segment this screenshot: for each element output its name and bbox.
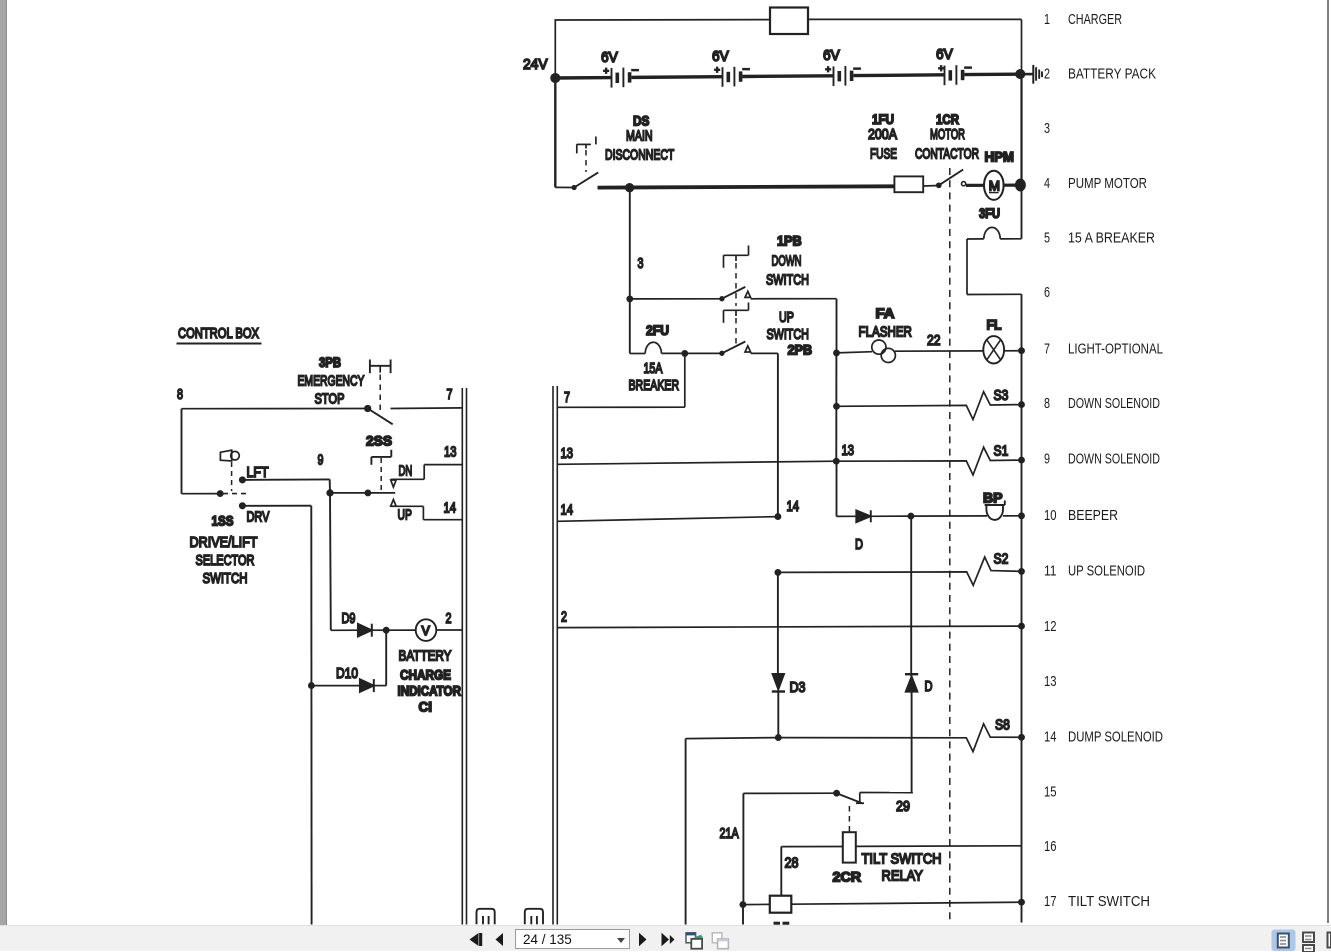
snapshot icon disabled (712, 933, 728, 949)
bus connector left (462, 388, 466, 925)
contactor 1CR (915, 111, 979, 187)
pushbutton 2PB UP switch (685, 309, 812, 358)
svg-text:DOWN SOLENOID: DOWN SOLENOID (1068, 395, 1160, 412)
svg-text:DRV: DRV (247, 509, 270, 526)
svg-text:SELECTOR: SELECTOR (196, 552, 255, 569)
svg-text:CHARGE: CHARGE (400, 667, 451, 683)
svg-text:22: 22 (927, 332, 941, 349)
svg-text:BATTERY: BATTERY (399, 648, 452, 665)
node S3 rail (1019, 402, 1024, 407)
node D9 out (384, 628, 389, 633)
svg-text:6V: 6V (936, 46, 953, 63)
svg-text:MAIN: MAIN (626, 128, 653, 145)
svg-text:DOWN: DOWN (772, 253, 802, 270)
svg-text:11: 11 (1044, 563, 1057, 580)
svg-text:15A: 15A (644, 360, 663, 377)
diode D10 (311, 665, 386, 692)
svg-text:BP: BP (983, 490, 1003, 506)
flasher FA (837, 305, 984, 363)
wire 7 row to 2FU (558, 353, 685, 407)
node S1 left (834, 459, 839, 464)
svg-text:DRIVE/LIFT: DRIVE/LIFT (190, 534, 258, 551)
svg-text:CONTACTOR: CONTACTOR (915, 146, 979, 163)
pushbutton 2PB bracket (724, 303, 749, 346)
motor HPM (966, 149, 1017, 200)
svg-text:SWITCH: SWITCH (766, 272, 809, 289)
svg-text:S3: S3 (994, 387, 1009, 404)
svg-text:UP SOLENOID: UP SOLENOID (1068, 563, 1145, 580)
breaker 3FU (967, 205, 1022, 295)
node S2 rail (1019, 569, 1024, 574)
breaker 2FU (629, 322, 685, 394)
svg-text:+: + (826, 64, 831, 74)
svg-text:S8: S8 (995, 717, 1010, 734)
node 3 junction (626, 184, 634, 192)
svg-text:3: 3 (1044, 120, 1050, 137)
lamp FL (983, 317, 1021, 364)
dashed linkage 1CR (949, 168, 951, 920)
control box label (177, 325, 262, 344)
svg-text:–: – (854, 62, 861, 74)
view mode icon selected (1272, 930, 1296, 952)
svg-text:UP: UP (779, 309, 794, 326)
svg-text:EMERGENCY: EMERGENCY (298, 373, 365, 390)
pushbutton 3PB switch row (177, 386, 462, 424)
svg-text:16: 16 (1044, 838, 1057, 855)
meter CI (386, 610, 462, 715)
svg-text:S1: S1 (994, 443, 1009, 460)
solenoid S3 (837, 387, 1022, 420)
svg-text:UP: UP (398, 507, 412, 524)
view mode icon continuous (1303, 933, 1314, 952)
wire diode D vertical (910, 516, 912, 676)
battery pack tap symbol (1025, 65, 1043, 84)
solenoid S2 (778, 551, 1022, 586)
selector switch 1SS DRV contact (190, 503, 312, 587)
svg-text:13: 13 (561, 445, 574, 462)
node BP rail (1019, 513, 1024, 518)
diode D3 (772, 674, 806, 738)
diode D up (905, 674, 933, 792)
wire 2PB output down (777, 353, 779, 516)
wire 28 (781, 847, 798, 896)
svg-text:13: 13 (444, 444, 457, 461)
svg-text:FLASHER: FLASHER (859, 324, 913, 341)
connector plug symbol left (477, 909, 495, 925)
svg-text:D10: D10 (336, 665, 358, 682)
battery cell 6V #1 (601, 49, 639, 88)
svg-text:DISCONNECT: DISCONNECT (605, 147, 674, 164)
wire 12 row (558, 626, 1022, 628)
relay contact 2CR (743, 791, 913, 832)
pushbutton 1PB bracket (724, 246, 749, 307)
node FL rail (1019, 348, 1024, 353)
svg-text:D: D (855, 536, 863, 553)
svg-text:–: – (743, 63, 750, 75)
battery cell 6V #4 (936, 46, 972, 85)
svg-text:2FU: 2FU (646, 322, 669, 338)
svg-text:14: 14 (444, 500, 457, 517)
wire DRV vertical (310, 506, 312, 925)
wire UP to 14 stub (391, 500, 462, 520)
svg-text:DUMP SOLENOID: DUMP SOLENOID (1068, 729, 1163, 746)
svg-text:1CR: 1CR (936, 111, 959, 127)
svg-text:MOTOR: MOTOR (930, 126, 965, 143)
svg-text:2: 2 (1044, 66, 1050, 83)
svg-text:FUSE: FUSE (870, 146, 897, 163)
view mode icon partial (1328, 933, 1331, 948)
node 17 row left (740, 902, 745, 907)
svg-text:–: – (632, 64, 639, 76)
diode D9 (331, 610, 386, 637)
svg-text:–: – (965, 62, 972, 74)
node 9 junction (327, 490, 333, 496)
svg-text:17: 17 (1044, 893, 1057, 910)
svg-text:3PB: 3PB (319, 354, 341, 370)
connector plug symbol right (525, 909, 543, 925)
svg-text:6V: 6V (601, 49, 618, 66)
svg-text:2PB: 2PB (788, 342, 813, 358)
svg-text:DOWN SOLENOID: DOWN SOLENOID (1068, 450, 1160, 467)
svg-text:3FU: 3FU (979, 205, 1000, 221)
wire S3-S1 vertical (835, 353, 837, 461)
svg-text:+: + (715, 65, 720, 75)
snapshot icon enabled (686, 933, 703, 949)
nav last-page button (662, 933, 675, 946)
node FA row (834, 350, 839, 355)
wire fuse to contactor (923, 185, 938, 188)
node 1PB row (627, 296, 632, 301)
svg-text:14: 14 (787, 498, 800, 515)
svg-text:200A: 200A (868, 126, 897, 143)
svg-text:7: 7 (447, 386, 453, 403)
svg-text:14: 14 (1044, 729, 1057, 746)
node 14 junction (775, 514, 780, 519)
svg-text:9: 9 (1044, 450, 1050, 467)
wire D9-D10 vertical (385, 630, 387, 685)
heavy wire DS to fuse (598, 186, 895, 187)
svg-text:12: 12 (1044, 618, 1057, 635)
svg-text:BEEPER: BEEPER (1068, 507, 1118, 524)
svg-text:D: D (925, 678, 933, 695)
solenoid S8 (778, 717, 1021, 752)
wire 9 to 2SS (330, 492, 395, 494)
wire 14 row (558, 517, 778, 522)
node 17 rail (1019, 900, 1024, 905)
selector switch 1SS LFT contact (240, 464, 330, 493)
svg-text:3: 3 (638, 255, 644, 272)
svg-text:S2: S2 (994, 551, 1009, 568)
svg-text:29: 29 (896, 798, 910, 815)
svg-text:10: 10 (1044, 507, 1057, 524)
svg-text:6: 6 (1044, 284, 1050, 301)
svg-text:6V: 6V (823, 47, 840, 64)
svg-text:2: 2 (561, 609, 567, 626)
svg-text:7: 7 (1044, 340, 1050, 357)
svg-text:RELAY: RELAY (882, 868, 923, 885)
node D10 on DRV (309, 683, 314, 688)
svg-text:1FU: 1FU (872, 111, 894, 127)
wire D9 junction vertical (329, 493, 332, 630)
wire S2 down through D3 (777, 572, 779, 674)
svg-text:1SS: 1SS (212, 513, 234, 529)
svg-text:D9: D9 (342, 610, 356, 627)
svg-text:SWITCH: SWITCH (203, 570, 248, 587)
node S8 left (776, 735, 781, 740)
svg-text:2: 2 (446, 610, 452, 627)
svg-text:14: 14 (561, 502, 574, 519)
disconnect switch DS (572, 113, 674, 190)
node 24V (551, 74, 559, 82)
svg-text:INDICATOR: INDICATOR (398, 683, 462, 699)
svg-text:1: 1 (1044, 11, 1050, 28)
wire beeper row left (836, 461, 838, 516)
svg-text:LIGHT-OPTIONAL: LIGHT-OPTIONAL (1068, 340, 1163, 357)
svg-text:8: 8 (1044, 395, 1050, 412)
nav next button (639, 933, 647, 946)
nav previous button (496, 933, 504, 946)
node 12 rail (1019, 624, 1024, 629)
svg-text:15: 15 (1044, 783, 1057, 800)
svg-text:2SS: 2SS (366, 433, 392, 449)
wire DN to 13 stub (391, 444, 462, 480)
battery row wire (555, 74, 1020, 78)
svg-text:8: 8 (177, 386, 183, 403)
svg-text:15 A BREAKER: 15 A BREAKER (1068, 230, 1155, 247)
nav first-page button (470, 933, 483, 946)
right rail lower (1021, 294, 1023, 902)
node S3 left (834, 404, 839, 409)
node S2 left (775, 570, 780, 575)
node battery pack (1016, 70, 1024, 78)
node S8 rail (1019, 735, 1024, 740)
svg-text:HPM: HPM (985, 149, 1015, 165)
beeper BP (911, 490, 1022, 520)
pushbutton 3PB symbol (298, 354, 391, 412)
wire left drop to 1SS (182, 409, 248, 497)
battery cell 6V #2 (712, 48, 750, 87)
wire left drop to DS (554, 78, 556, 187)
svg-text:CI: CI (419, 699, 433, 715)
wire charger top (555, 19, 770, 21)
svg-text:CHARGER: CHARGER (1068, 11, 1122, 28)
svg-text:6V: 6V (712, 48, 729, 65)
wire S8 row left + drop (686, 738, 779, 925)
relay coil 2CR (781, 832, 1021, 884)
svg-text:4: 4 (1044, 175, 1050, 192)
svg-text:13: 13 (842, 442, 855, 459)
pushbutton 1PB switch (630, 233, 837, 301)
svg-text:24V: 24V (523, 56, 548, 73)
svg-text:D3: D3 (790, 679, 806, 696)
svg-text:SWITCH: SWITCH (767, 326, 809, 343)
fuse 1FU (868, 111, 923, 192)
wire 1PB output down (836, 299, 838, 353)
svg-text:CONTROL BOX: CONTROL BOX (178, 325, 259, 342)
node beeper-diode junction (908, 514, 913, 519)
wire 21A (720, 793, 744, 924)
node S1 rail (1019, 458, 1024, 463)
svg-text:STOP: STOP (315, 391, 345, 408)
svg-text:+: + (604, 66, 609, 76)
svg-text:2CR: 2CR (833, 869, 862, 885)
svg-text:FL: FL (987, 317, 1002, 333)
svg-text:DS: DS (633, 113, 649, 129)
svg-text:TILT SWITCH: TILT SWITCH (862, 851, 942, 868)
wire 3 vertical (629, 188, 631, 299)
svg-text:V: V (422, 624, 431, 638)
svg-text:13: 13 (1044, 673, 1057, 690)
svg-text:TILT SWITCH: TILT SWITCH (1068, 893, 1150, 910)
svg-text:FA: FA (876, 305, 895, 321)
svg-text:PUMP MOTOR: PUMP MOTOR (1068, 175, 1147, 192)
svg-text:7: 7 (564, 389, 570, 406)
right rail upper (1020, 74, 1022, 185)
charger box (770, 8, 808, 35)
svg-text:+: + (939, 64, 944, 74)
svg-text:BREAKER: BREAKER (629, 377, 680, 394)
svg-text:28: 28 (785, 855, 799, 872)
svg-text:LFT: LFT (247, 464, 269, 481)
solenoid S1 (836, 443, 1021, 476)
svg-text:M: M (989, 179, 1000, 194)
bus connector mid (553, 386, 557, 925)
horn icon (220, 450, 239, 491)
diode D beeper row (855, 510, 911, 553)
svg-text:BATTERY PACK: BATTERY PACK (1068, 66, 1156, 83)
node pump motor (1016, 179, 1025, 190)
svg-text:DN: DN (399, 463, 413, 480)
svg-text:9: 9 (318, 452, 324, 469)
svg-text:21A: 21A (720, 825, 739, 842)
battery cell 6V #3 (823, 47, 861, 86)
svg-text:1PB: 1PB (777, 233, 802, 249)
selector switch 2SS (365, 433, 412, 524)
svg-text:5: 5 (1044, 230, 1050, 247)
tilt switch TS box (743, 896, 1022, 925)
node 2FU junction (682, 351, 687, 356)
wire 13 row (558, 461, 837, 464)
